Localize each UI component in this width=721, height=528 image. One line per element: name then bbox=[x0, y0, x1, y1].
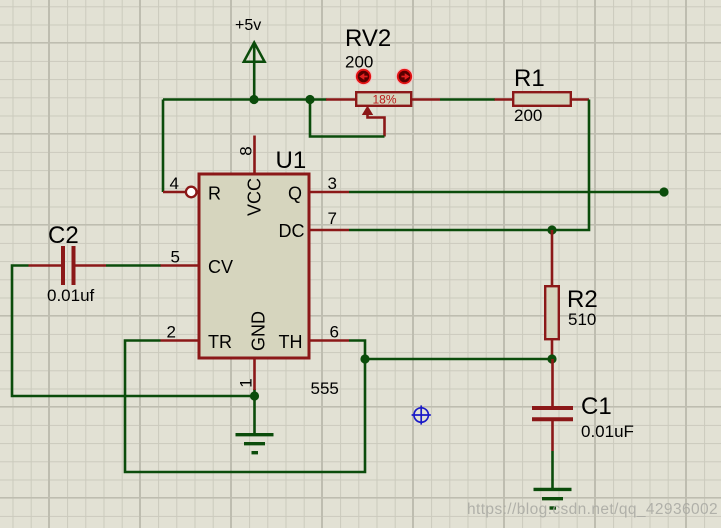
svg-text:TR: TR bbox=[208, 332, 232, 352]
wire wiper return bbox=[310, 100, 385, 137]
power terminal +5v bbox=[244, 43, 265, 100]
svg-text:TH: TH bbox=[279, 332, 303, 352]
wire TR loop bbox=[125, 341, 365, 473]
svg-text:Q: Q bbox=[288, 184, 302, 204]
node Q output end bbox=[659, 187, 668, 196]
pin 7 lead (DC) bbox=[311, 229, 350, 232]
svg-text:C2: C2 bbox=[48, 222, 79, 249]
svg-text:5: 5 bbox=[171, 248, 180, 267]
IC U1 555 body bbox=[199, 174, 309, 358]
svg-text:200: 200 bbox=[345, 53, 373, 72]
svg-text:RV2: RV2 bbox=[345, 25, 391, 52]
wire R1 to DC node bbox=[552, 100, 589, 231]
svg-text:7: 7 bbox=[328, 209, 337, 228]
wire C2 left loop bbox=[12, 266, 255, 397]
RV2 wiper arrow bbox=[362, 106, 385, 137]
pin 6 lead (TH) bbox=[311, 339, 350, 342]
svg-text:1: 1 bbox=[237, 378, 256, 387]
pin 1 lead (GND) bbox=[253, 358, 256, 390]
junction wiper return bbox=[305, 95, 314, 104]
R1 right lead bbox=[572, 98, 589, 101]
svg-text:0.01uf: 0.01uf bbox=[47, 286, 95, 305]
svg-text:DC: DC bbox=[279, 221, 305, 241]
RV2 left lead bbox=[326, 98, 356, 101]
wire C2 to CV bbox=[106, 264, 161, 267]
wire pin4 drop bbox=[162, 100, 165, 193]
wire top rail bbox=[163, 98, 327, 101]
junction R2 top bbox=[547, 225, 556, 234]
wire DC to R2 top bbox=[349, 229, 552, 232]
pin 2 lead (TR) bbox=[161, 339, 198, 342]
svg-text:R: R bbox=[208, 184, 221, 204]
resistor R1 body bbox=[513, 92, 571, 106]
svg-text:R1: R1 bbox=[514, 65, 545, 92]
wire Q output bbox=[349, 191, 664, 194]
svg-text:8: 8 bbox=[237, 146, 256, 155]
origin marker bbox=[412, 405, 431, 424]
ground (C1) bbox=[534, 489, 572, 508]
pin 8 lead (VCC) bbox=[253, 136, 256, 175]
svg-text:18%: 18% bbox=[372, 93, 396, 107]
capacitor C2 bbox=[29, 246, 107, 285]
wire TH node to R2 bottom bbox=[365, 358, 552, 361]
svg-text:6: 6 bbox=[330, 323, 339, 342]
svg-text:U1: U1 bbox=[276, 147, 307, 174]
RV2 right lead bbox=[412, 98, 440, 101]
R2 top lead bbox=[551, 230, 554, 286]
svg-text:+5v: +5v bbox=[235, 17, 261, 34]
resistor R2 body bbox=[545, 286, 559, 339]
svg-text:4: 4 bbox=[170, 174, 179, 193]
R1 left lead bbox=[495, 98, 513, 101]
svg-text:https://blog.csdn.net/qq_42936: https://blog.csdn.net/qq_42936002 bbox=[467, 501, 718, 518]
svg-text:510: 510 bbox=[568, 310, 596, 329]
capacitor C1 bbox=[532, 359, 573, 451]
svg-text:555: 555 bbox=[311, 379, 339, 398]
wire TH corner bbox=[349, 341, 365, 360]
svg-text:CV: CV bbox=[208, 257, 233, 277]
wire GND pin to ground bbox=[253, 389, 256, 435]
pin 5 lead (CV) bbox=[161, 264, 198, 267]
svg-text:GND: GND bbox=[249, 311, 269, 351]
svg-text:C1: C1 bbox=[581, 393, 612, 420]
svg-text:3: 3 bbox=[328, 174, 337, 193]
junction R2 bottom bbox=[547, 354, 556, 363]
junction VCC rail bbox=[249, 95, 258, 104]
pin 3 lead (Q) bbox=[311, 191, 350, 194]
pin 4 lead (R) with bubble bbox=[163, 187, 197, 198]
wire C1 to ground bbox=[551, 451, 554, 489]
svg-text:200: 200 bbox=[514, 106, 542, 125]
junction TH node bbox=[360, 354, 369, 363]
R2 bottom lead bbox=[551, 339, 554, 359]
RV2 decrement button bbox=[355, 68, 371, 84]
potentiometer RV2 body bbox=[356, 92, 411, 106]
ground (U1) bbox=[236, 435, 274, 453]
wire RV2 to R1 bbox=[440, 98, 495, 101]
svg-text:R2: R2 bbox=[567, 286, 598, 313]
junction ground node bbox=[250, 391, 259, 400]
svg-text:0.01uF: 0.01uF bbox=[581, 422, 634, 441]
svg-text:VCC: VCC bbox=[245, 178, 265, 216]
RV2 increment button bbox=[396, 68, 412, 84]
svg-text:2: 2 bbox=[167, 323, 176, 342]
